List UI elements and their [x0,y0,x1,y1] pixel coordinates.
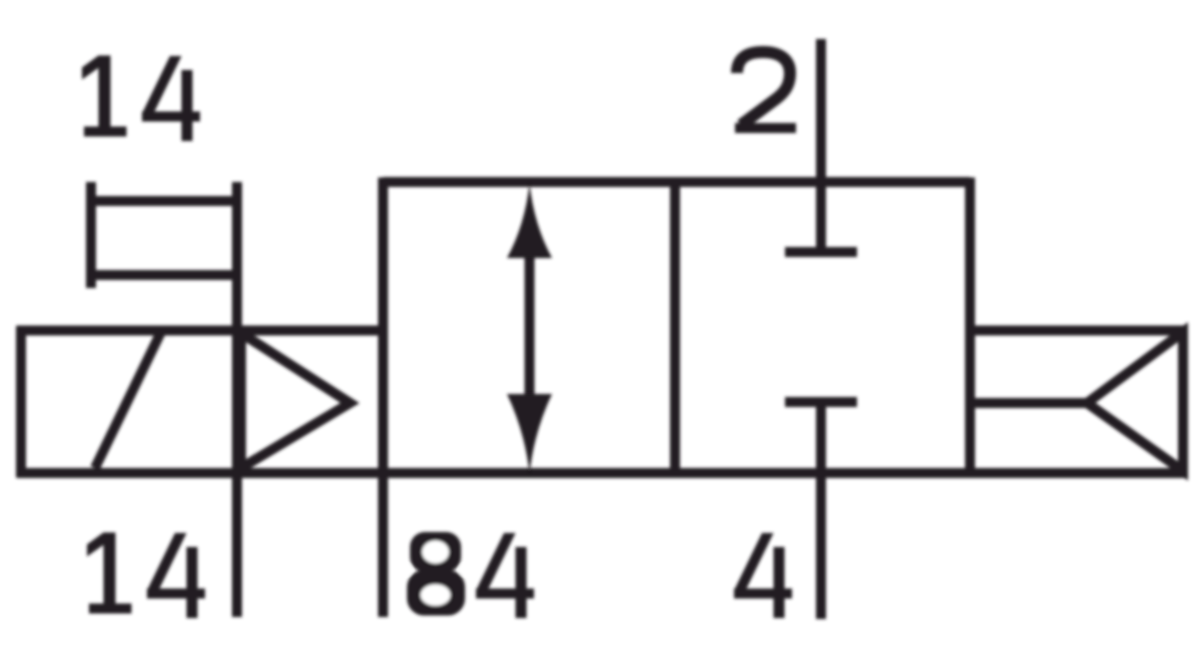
valve body right edge [965,178,975,474]
right pilot right edge [1178,326,1188,478]
valve body top edge [383,177,970,187]
right pilot top edge [970,326,1188,336]
label 84 (pilot exhaust port): digit 8 [404,532,468,616]
wire: bottom rail under solenoid, valve body and right pilot [17,468,1188,478]
pilot symbol upper bar [91,196,237,206]
label 84 (pilot exhaust port): digit 4 [476,533,534,618]
pilot actuation triangle (left, pointing right) [241,333,350,468]
port 2 stem wire [816,39,826,252]
right pilot middle line [970,398,1087,408]
pilot symbol left tick (port 14 connection) [86,182,96,288]
label 14 (bottom pilot port): digit 1 [87,533,132,614]
arrow shaft (left cell, double-headed arrow) [525,250,535,405]
wire: top rail from solenoid to valve body [17,326,388,336]
label 14 (bottom pilot port): digit 4 [147,533,205,618]
port 4 stem wire [816,402,826,619]
solenoid diagonal stroke [95,332,161,468]
label 4 (output port) [734,533,792,618]
solenoid box left edge [16,326,26,478]
port 2 seat bar [785,247,857,257]
valve body cell divider [670,182,680,473]
node line: divider x=237 (solenoid/triangle) with riser to port 14 [232,182,242,617]
right pilot triangle (pointing left) [1087,332,1183,471]
label 2 (output port) [735,52,796,133]
arrow head bottom [507,394,552,474]
label 14 (top pilot port): digit 1 [82,56,127,137]
pilot symbol lower bar [91,270,237,280]
arrow head top [507,183,552,258]
label 14 (top pilot port): digit 4 [142,56,200,141]
port 4 seat bar [785,397,857,407]
valve body left edge with riser to port 84 [378,178,388,618]
